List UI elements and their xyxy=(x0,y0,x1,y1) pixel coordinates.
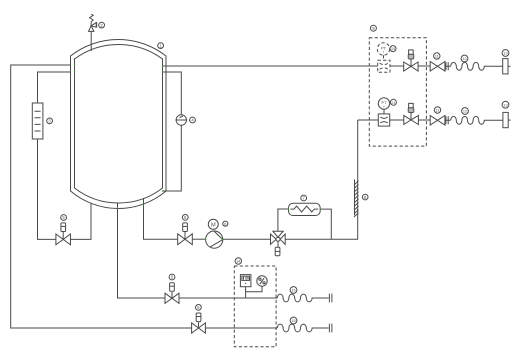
panel box 9 xyxy=(369,38,426,146)
label 4 xyxy=(190,117,196,123)
level gauge LG3 xyxy=(32,103,43,139)
tank T1 outer shell xyxy=(71,39,167,208)
junction dots xyxy=(74,64,321,240)
label 15 top xyxy=(290,287,297,294)
control valve CV bottom xyxy=(404,103,419,124)
svg-text:11: 11 xyxy=(435,55,439,59)
union top row xyxy=(445,62,451,70)
wire heat exchanger outlet down xyxy=(320,209,331,239)
wire tank bottom drain to fill line xyxy=(118,203,166,298)
svg-text:M: M xyxy=(211,222,216,228)
future regulator FR (dashed) top row xyxy=(378,60,390,72)
wire main line to vaporizer riser xyxy=(285,120,358,239)
label 14 xyxy=(235,258,241,264)
hose H15 top xyxy=(277,294,332,303)
valve V11 bottom xyxy=(430,116,445,126)
valve V11 top xyxy=(430,62,445,72)
wire fill line to hose xyxy=(179,297,277,299)
wire vapor line through fill box xyxy=(205,327,277,329)
label 13 bottom xyxy=(502,101,509,108)
fill connection E13 bottom xyxy=(503,112,511,127)
fill connection E13 top xyxy=(503,59,511,74)
svg-text:12: 12 xyxy=(462,57,466,61)
wire gas line tank top right to regulator box xyxy=(163,65,378,67)
svg-text:10: 10 xyxy=(391,47,395,51)
svg-text:13: 13 xyxy=(503,103,507,107)
wire square to control valve top row xyxy=(390,65,404,67)
vaporizer V8 hatched section xyxy=(354,180,359,218)
svg-text:21: 21 xyxy=(391,101,395,105)
svg-text:12: 12 xyxy=(463,110,467,114)
svg-text:15: 15 xyxy=(291,289,295,293)
safety valve SV2 xyxy=(89,14,97,31)
hose H12 top xyxy=(451,62,503,70)
wire valve to pump xyxy=(192,238,205,240)
wire pump to three-way valve xyxy=(223,238,271,240)
label 11 top xyxy=(434,53,440,59)
pump P6 xyxy=(206,219,223,248)
future transmitter PT (dashed) top row xyxy=(377,43,389,60)
label 5b xyxy=(182,215,188,221)
svg-text:14: 14 xyxy=(236,260,240,264)
wire square to control valve bottom row xyxy=(390,119,404,121)
hose H15 bottom xyxy=(277,324,332,333)
svg-text:PT: PT xyxy=(381,46,387,51)
wire valve V5a to tank bottom xyxy=(71,198,92,240)
percent indicator PC xyxy=(257,276,267,286)
label 10 top xyxy=(390,46,396,52)
wire gauge bottom to valve V5a xyxy=(38,139,56,239)
union bottom row xyxy=(445,116,451,124)
label 13 top xyxy=(502,50,509,57)
svg-text:15: 15 xyxy=(291,319,295,323)
wire bypass riser to heat exchanger xyxy=(278,209,289,231)
valve V5c xyxy=(165,283,179,304)
wire control valve to box edge bottom row xyxy=(418,119,430,121)
wire economizer line from tank xyxy=(163,72,181,115)
label 5d xyxy=(196,305,202,311)
label 7 xyxy=(301,195,307,201)
label 6 xyxy=(223,221,228,226)
valve V5d xyxy=(192,313,206,333)
label 9 xyxy=(370,25,376,31)
panel box 14 xyxy=(234,266,276,347)
heat exchanger HX7 xyxy=(289,203,321,215)
svg-text:11: 11 xyxy=(436,109,440,113)
label 3 xyxy=(47,118,53,124)
label 15 bottom xyxy=(290,317,297,324)
label 1 xyxy=(158,43,164,49)
wire control valve to box edge top row xyxy=(418,65,430,67)
label 2 xyxy=(99,22,105,28)
wire instrument stems box 14 xyxy=(246,286,262,298)
label 12 top xyxy=(461,55,468,62)
transmitter PT bottom row xyxy=(378,98,389,114)
weighing indicator WI xyxy=(240,275,251,287)
label 5c xyxy=(169,274,175,280)
label 21 bottom xyxy=(390,99,396,105)
svg-text:PT: PT xyxy=(382,100,388,105)
control valve CV top xyxy=(404,50,418,71)
valve V5b xyxy=(178,223,193,245)
regulator R4 xyxy=(176,115,188,125)
label 11 bottom xyxy=(434,107,440,113)
three-way valve TW xyxy=(271,231,286,256)
tank T1 inner shell xyxy=(75,44,163,203)
wire safety valve riser xyxy=(90,31,92,51)
wire vaporizer riser to regulator bottom row xyxy=(358,119,379,121)
wire economizer line to tank bottom xyxy=(162,125,181,191)
wire vapor line left (tank top to bottom fill header) xyxy=(11,65,192,328)
label 5a xyxy=(61,215,67,221)
wire pump suction from tank bottom xyxy=(144,198,178,239)
label 8 xyxy=(362,194,368,200)
label 12 bottom xyxy=(462,108,469,115)
svg-text:13: 13 xyxy=(503,52,507,56)
wire level gauge top connection xyxy=(38,72,75,103)
hose H12 bottom xyxy=(451,116,503,124)
pressure regulator PR bottom row xyxy=(378,114,389,126)
valve V5a xyxy=(56,223,71,245)
